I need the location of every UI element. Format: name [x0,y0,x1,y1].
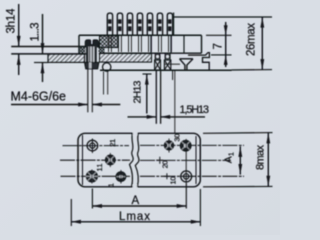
contact 2 circle [116,172,126,182]
pin shanks inside body [109,35,172,52]
pin-top extension vertical [173,13,175,36]
1.5H13 dim line left [128,116,157,118]
right shelf step [188,53,209,71]
A extension left [91,189,93,209]
bushing nut [85,62,99,68]
svg-text:1: 1 [106,183,115,187]
label A1 [223,152,236,163]
screw hole top-left [87,139,98,153]
svg-text:2H13: 2H13 [132,80,144,103]
Lmax extension right [199,189,201,226]
svg-text:M4-6G/6e: M4-6G/6e [11,90,67,104]
svg-text:Lmax: Lmax [119,211,150,223]
svg-text:10: 10 [169,177,178,185]
body inner horizontal line [100,52,202,54]
arrowhead down to flange top [17,36,21,47]
contact 20 cross [156,157,163,164]
dim line 1...3 lower stem [42,63,44,82]
A1 dim line [239,146,241,174]
svg-text:1...3: 1...3 [30,23,42,42]
bushing shaft through panel [86,47,96,63]
svg-text:11: 11 [95,164,104,172]
2H13 top tick [143,73,152,75]
arrowhead down to panel top [41,43,45,54]
bushing internal thread lines [89,47,91,63]
svg-text:26max: 26max [246,23,258,56]
bushing screw head with slot [85,40,98,47]
dim 7 bottom extension [211,54,232,56]
break wavy line 1 [130,133,134,187]
dim line 3h14 upper stem [18,4,20,46]
svg-text:8max: 8max [255,145,267,171]
contact center ticks [92,139,169,184]
panel hatched section (left of bushing) [48,54,85,62]
Lmax extension left [70,199,72,226]
svg-text:30: 30 [172,134,181,142]
contact 30a circle [164,141,173,150]
Lmax dim line [71,221,200,223]
arrowhead up (26max top) [260,17,264,28]
flange x-hatch left of bushing [80,47,85,54]
body right edge [201,35,203,53]
cross-hatched block right of bushing [100,36,119,48]
break gap masks [133,132,138,135]
dim 26max vertical line [261,17,263,70]
contact 10 cross [164,173,170,179]
svg-text:1: 1 [227,152,236,156]
projection lines below circle [103,72,105,95]
screw2 vertical center line [185,139,187,183]
2H13 up arrow [146,74,148,114]
body top line [79,34,202,36]
svg-text:21: 21 [108,139,117,147]
thread hole lines below bushing [87,69,89,113]
flange x-hatch right of bushing [99,47,105,54]
screw hole bottom-right [181,171,192,182]
svg-text:20: 20 [161,160,170,168]
flange top line [11,46,100,48]
arrowhead up to flange bottom [17,54,21,65]
dim 7 vertical line [225,22,227,67]
body divider 1 [150,35,152,53]
body left edge [78,35,80,54]
1.5H13 dim line right [161,116,205,118]
contact 30b circle [180,140,191,151]
projection line to bottom view [174,70,176,133]
arrowhead up (7 bottom) [224,55,228,65]
arrowhead left to thread [92,102,102,106]
contact 1 circle [86,170,98,182]
26max bottom extension continues from body bottom [232,69,273,71]
screw1 vertical center line [91,139,93,154]
flange bottom line [11,53,86,55]
arrowhead up to panel bottom [41,63,45,74]
8max dim line [267,133,269,187]
svg-text:7: 7 [213,43,225,49]
contact 11 circle [105,155,115,165]
solder lug 2 [164,53,170,70]
row 3 center line [61,175,131,177]
dim line 1...3 upper stem [42,14,44,54]
8max bottom extension [203,185,273,187]
wire-entry circle under body [103,63,111,71]
body outline [78,133,200,187]
row 1 center line [63,145,130,147]
pins [107,13,172,35]
stub line below funnel [172,71,174,81]
wire funnel [180,59,194,71]
funnel inner slot line [165,63,180,65]
26max top extension line [173,16,272,18]
body divider 3 [183,35,185,53]
dim 7 top extension [206,34,232,36]
arrowhead down (26max bottom) [260,59,264,70]
dim line 3h14 lower stem [18,54,20,75]
bushing shaft right wall [94,47,96,63]
M4 dim line left [11,104,88,106]
row 2 center line [60,159,130,161]
inner right edge line [195,136,197,184]
inner left edge line [82,135,84,185]
M4 dim line right [92,104,120,106]
panel bottom extension line [34,62,49,64]
1.5H13 slot lines [155,71,157,124]
svg-text:A: A [223,156,235,163]
8max top extension [203,132,273,135]
lug socket circles [155,54,160,59]
A dim line [92,205,186,207]
svg-text:1,5H13: 1,5H13 [180,104,210,116]
arrowhead right to thread [78,102,88,106]
bottom line of section [100,69,232,71]
svg-text:A: A [132,195,140,207]
break wavy line 2 [135,133,139,187]
solder lug 1 [155,53,161,70]
arrowhead down (7 top) [224,25,228,35]
nut thread slit [89,62,92,68]
body divider 2 [170,35,172,53]
svg-text:3h14: 3h14 [6,8,18,34]
A extension right [185,183,187,209]
hatched insulator band (right of bushing) [100,54,152,63]
bushing shaft left wall [86,47,88,63]
